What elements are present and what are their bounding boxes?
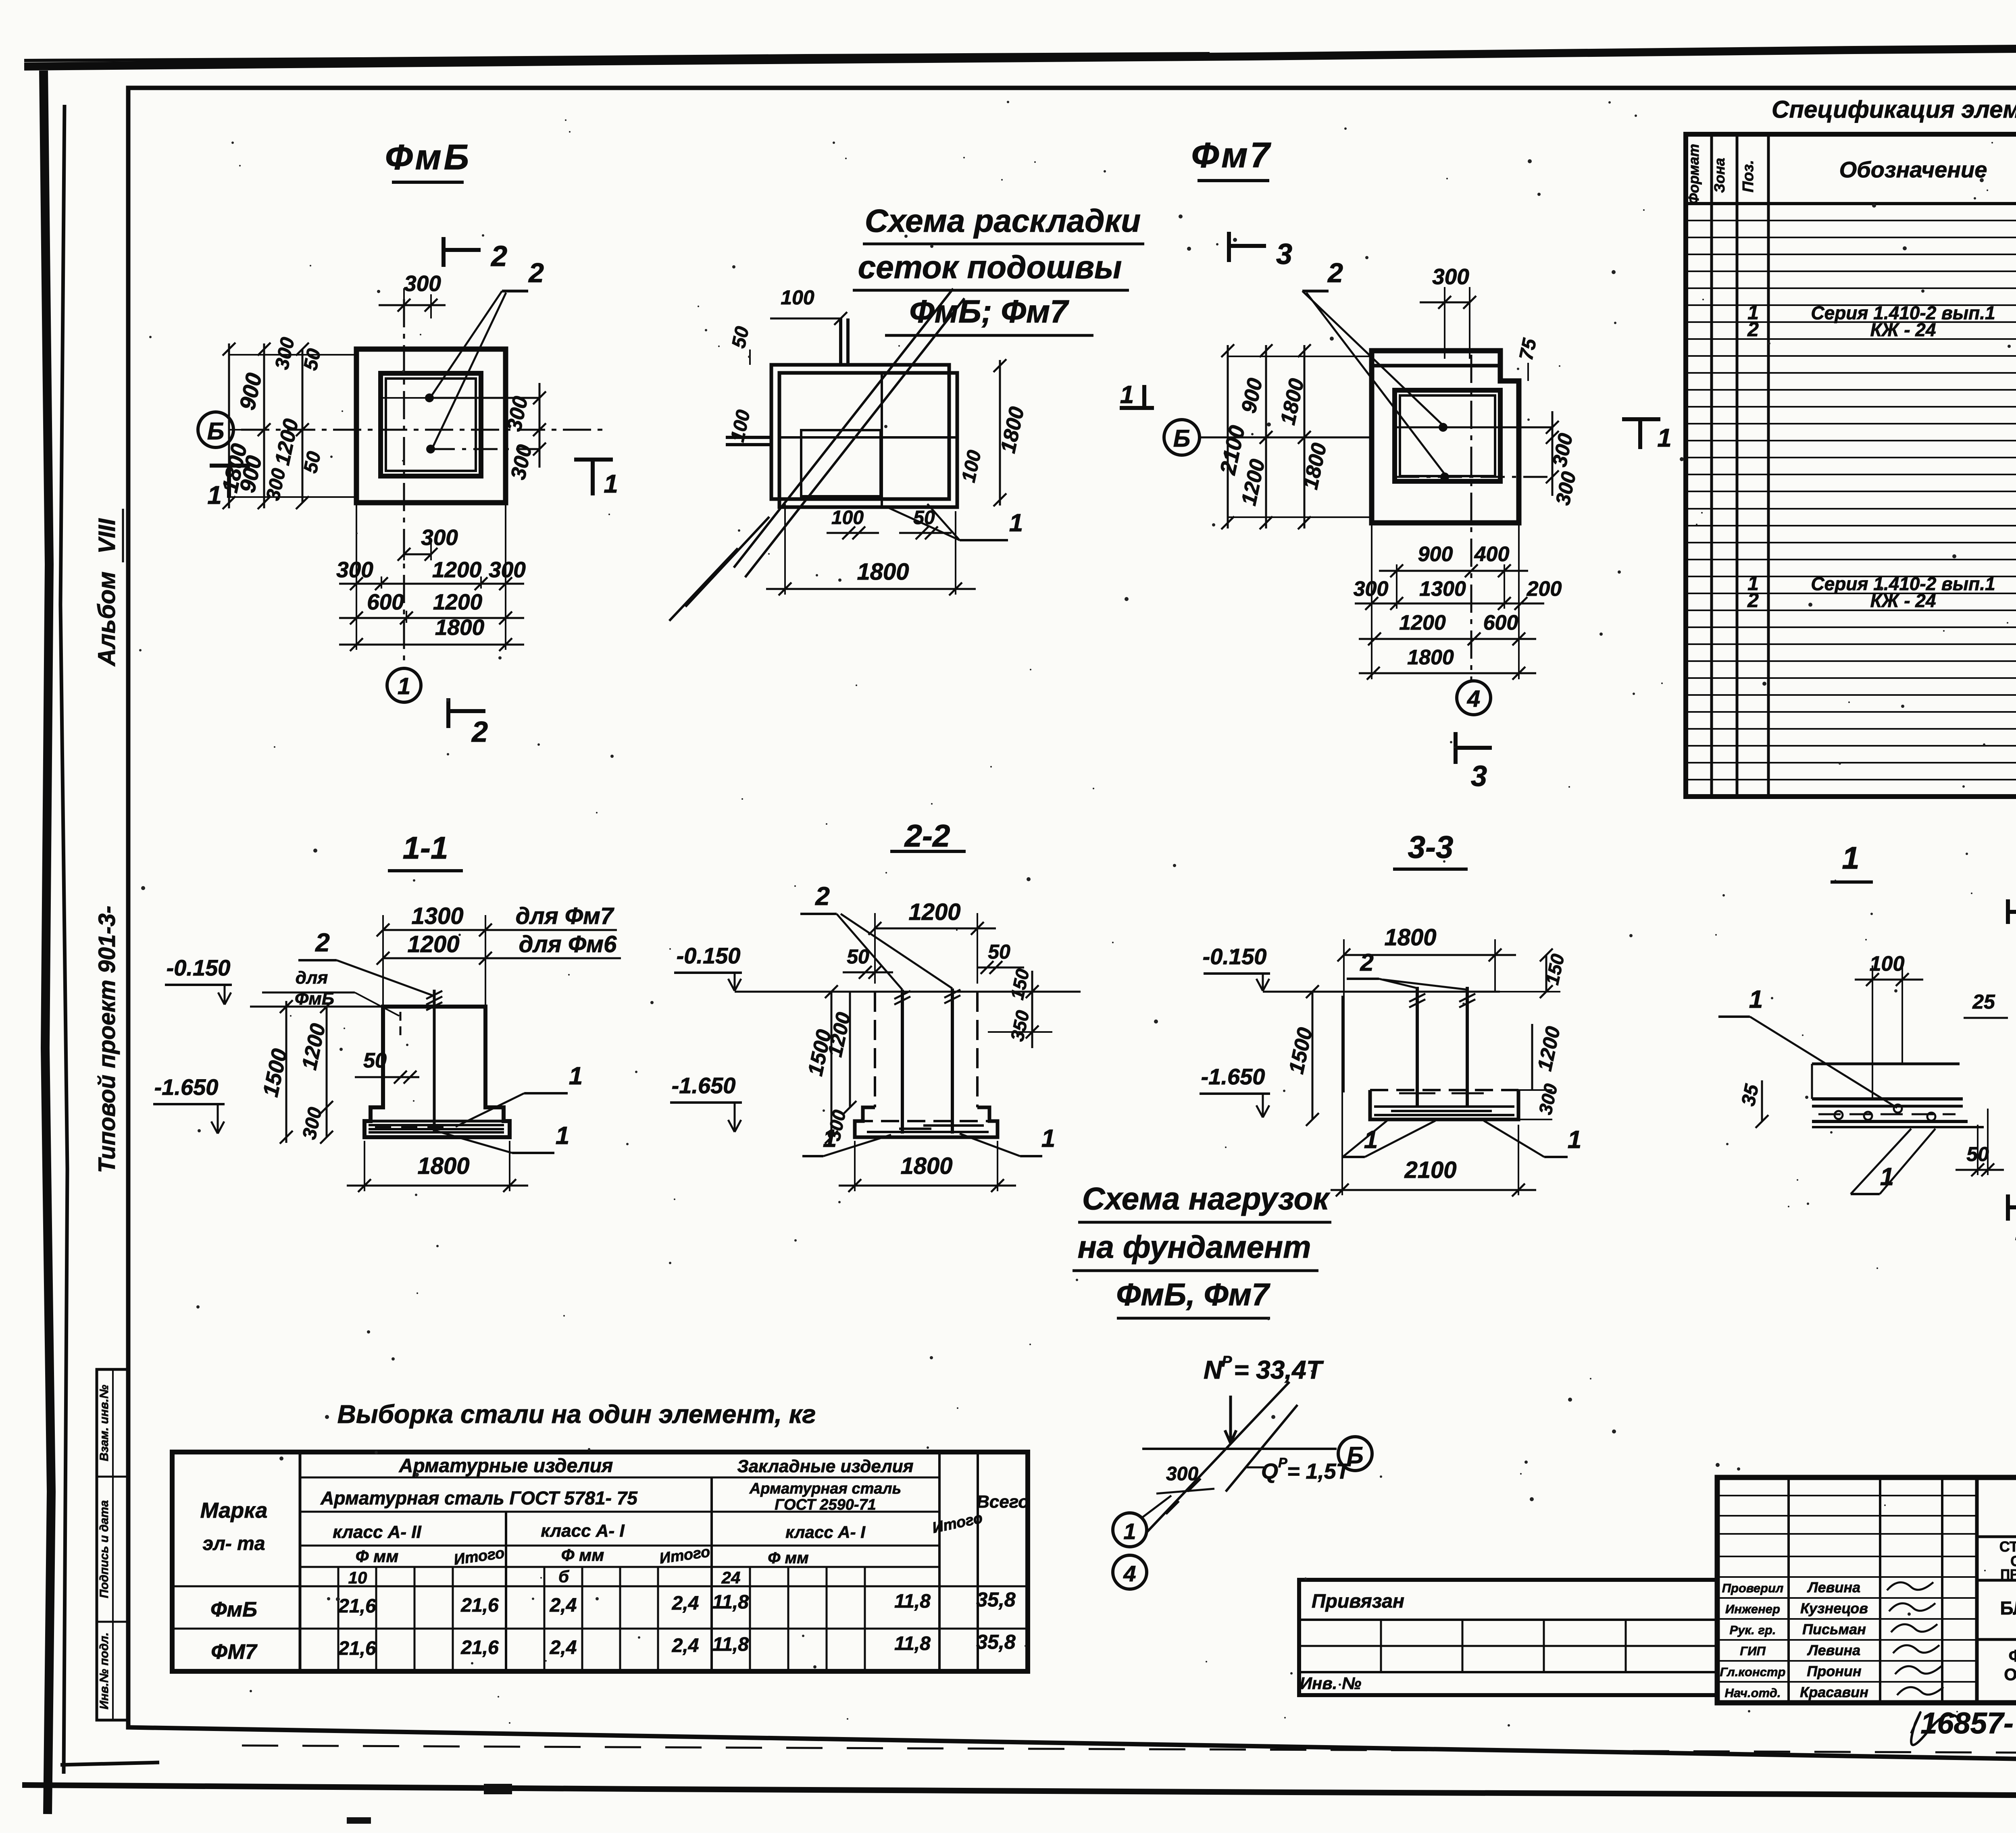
svg-text:300: 300 bbox=[421, 525, 458, 550]
svg-text:Ф мм: Ф мм bbox=[768, 1549, 809, 1567]
svg-text:Красавин: Красавин bbox=[1800, 1684, 1868, 1700]
svg-text:2: 2 bbox=[490, 240, 507, 273]
svg-text:КЖ - 24: КЖ - 24 bbox=[1870, 590, 1936, 611]
svg-text:Б: Б bbox=[1173, 425, 1190, 452]
svg-text:Арматурные изделия: Арматурные изделия bbox=[399, 1455, 613, 1477]
section marker 2 top bbox=[442, 237, 446, 267]
rebars (3-3) bbox=[1416, 987, 1419, 1107]
svg-text:сеток подошвы: сеток подошвы bbox=[858, 249, 1122, 285]
svg-text:1: 1 bbox=[398, 673, 410, 699]
FM7 left dim chains bbox=[1227, 345, 1229, 528]
plan FM6 inner square (cup) bbox=[381, 373, 481, 476]
svg-text:1: 1 bbox=[1009, 509, 1023, 537]
svg-text:50: 50 bbox=[988, 940, 1010, 963]
svg-text:1: 1 bbox=[823, 1125, 837, 1153]
surface line (3-3) bbox=[1263, 991, 1500, 993]
svg-text:2: 2 bbox=[1360, 949, 1373, 976]
svg-text:1: 1 bbox=[1120, 381, 1134, 409]
svg-text:50: 50 bbox=[363, 1049, 387, 1072]
axis circle B (FM7) bbox=[1164, 420, 1200, 455]
svg-text:Р: Р bbox=[1222, 1353, 1232, 1370]
scan border top line bbox=[24, 45, 2016, 67]
svg-text:1: 1 bbox=[1568, 1126, 1581, 1154]
svg-text:ФмБ: ФмБ bbox=[385, 137, 471, 177]
svg-text:Спецификация элементов монол: Спецификация элементов монолитной констр… bbox=[1772, 96, 2016, 123]
svg-text:10: 10 bbox=[348, 1568, 367, 1587]
embedded item dots bbox=[425, 393, 434, 402]
svg-text:КЖ - 24: КЖ - 24 bbox=[1870, 319, 1936, 340]
svg-text:600: 600 bbox=[1483, 611, 1518, 635]
axis circle B (FM6) bbox=[198, 412, 233, 447]
svg-text:Р: Р bbox=[1278, 1455, 1287, 1471]
svg-text:50: 50 bbox=[728, 325, 753, 350]
svg-text:СТАНЦИЯ ОЧИСТКИ ВОДЫ ПОВЕРХНОС: СТАНЦИЯ ОЧИСТКИ ВОДЫ ПОВЕРХНОСТНЫХ ИСТОЧ… bbox=[1999, 1538, 2016, 1555]
svg-text:= 1,5Т: = 1,5Т bbox=[1287, 1459, 1351, 1483]
svg-text:Привязан: Привязан bbox=[1312, 1591, 1404, 1612]
svg-text:Схема нагрузок: Схема нагрузок bbox=[1082, 1181, 1330, 1216]
svg-text:ФУНДАМЕНТЫ ФМ6; ФМ7: ФУНДАМЕНТЫ ФМ6; ФМ7 bbox=[2009, 1646, 2016, 1665]
svg-text:Арматурная сталь ГОСТ 5781- 7: Арматурная сталь ГОСТ 5781- 75 bbox=[320, 1488, 638, 1508]
svg-text:21,6: 21,6 bbox=[460, 1595, 499, 1616]
svg-text:900: 900 bbox=[1418, 543, 1453, 566]
svg-text:= 33,4Т: = 33,4Т bbox=[1234, 1355, 1324, 1384]
section marker 2 bottom (FM6) bbox=[446, 698, 450, 728]
svg-text:Б: Б bbox=[207, 418, 224, 445]
svg-text:Гл.констр: Гл.констр bbox=[1720, 1665, 1786, 1679]
load scheme: inclined member bbox=[1147, 1382, 1289, 1532]
svg-text:24: 24 bbox=[721, 1568, 741, 1587]
mesh diagonals bbox=[745, 298, 964, 577]
svg-text:для Фм7: для Фм7 bbox=[516, 903, 614, 929]
svg-text:Нач.отд.: Нач.отд. bbox=[1724, 1686, 1781, 1700]
section 2-2 column outline bbox=[874, 992, 876, 1107]
section marker 1 right (FM7) bbox=[1622, 417, 1660, 421]
plan FM7 axes bbox=[1470, 355, 1472, 681]
section marker 4 bottom (detail 1) bbox=[2006, 1194, 2010, 1221]
svg-text:1: 1 bbox=[1041, 1125, 1055, 1153]
svg-text:2,4: 2,4 bbox=[550, 1637, 577, 1658]
svg-text:Б: Б bbox=[1347, 1442, 1363, 1469]
svg-text:1: 1 bbox=[207, 481, 222, 510]
axis circle 1 (FM6) bbox=[387, 668, 421, 702]
svg-text:Ф мм: Ф мм bbox=[356, 1547, 399, 1566]
margin stamp strip bbox=[97, 1369, 128, 1720]
svg-text:2: 2 bbox=[815, 882, 830, 911]
svg-text:1200: 1200 bbox=[407, 931, 459, 957]
svg-text:1300: 1300 bbox=[1419, 577, 1466, 601]
svg-text:35,8: 35,8 bbox=[976, 1631, 1016, 1653]
section marker 4 top (detail 1) bbox=[2006, 899, 2010, 924]
svg-text:100: 100 bbox=[1870, 952, 1905, 976]
svg-text:3: 3 bbox=[1276, 238, 1292, 270]
title block frame bbox=[1717, 1477, 2016, 1703]
axis circle 4 (FM7) bbox=[1457, 681, 1491, 715]
svg-text:-0.150: -0.150 bbox=[1203, 944, 1267, 969]
svg-text:Рук. гр.: Рук. гр. bbox=[1730, 1623, 1776, 1637]
load scheme: axis circles 1 and 4 bbox=[1113, 1513, 1147, 1547]
svg-text:1: 1 bbox=[569, 1062, 583, 1090]
svg-text:-1.650: -1.650 bbox=[154, 1074, 219, 1100]
svg-text:ФмБ; Фм7: ФмБ; Фм7 bbox=[909, 293, 1069, 329]
scan border left bar bbox=[44, 71, 51, 1814]
privyazan table bbox=[1299, 1580, 1717, 1695]
title block left grid bbox=[1787, 1477, 1790, 1703]
plan FM7 outline bbox=[1372, 351, 1519, 523]
svg-text:1: 1 bbox=[604, 469, 618, 498]
svg-text:Зона: Зона bbox=[1711, 158, 1728, 193]
svg-text:N: N bbox=[1204, 1355, 1223, 1384]
load scheme: axis B line bbox=[1142, 1448, 1337, 1450]
footing (3-3) bbox=[1370, 1090, 1518, 1119]
svg-text:VIII: VIII bbox=[94, 518, 120, 554]
svg-text:300: 300 bbox=[1166, 1463, 1198, 1485]
svg-text:Типовой проект 901-3-: Типовой проект 901-3- bbox=[94, 906, 120, 1173]
svg-text:1200: 1200 bbox=[1399, 611, 1446, 635]
svg-text:50: 50 bbox=[300, 449, 325, 475]
svg-text:-0.150: -0.150 bbox=[677, 943, 741, 968]
svg-text:1800: 1800 bbox=[1384, 924, 1436, 951]
svg-text:2: 2 bbox=[1747, 318, 1759, 341]
spec table grid bbox=[1686, 134, 2016, 797]
plan FM6 outer square bbox=[356, 349, 506, 503]
svg-text:300: 300 bbox=[489, 557, 526, 582]
svg-text:ГОСТ 2590-71: ГОСТ 2590-71 bbox=[775, 1496, 876, 1513]
svg-text:Письман: Письман bbox=[1802, 1621, 1866, 1637]
svg-text:Пронин: Пронин bbox=[1807, 1663, 1862, 1679]
steel table horizontals bbox=[300, 1477, 939, 1479]
svg-text:1300: 1300 bbox=[411, 903, 463, 929]
svg-text:21,6: 21,6 bbox=[460, 1637, 499, 1658]
svg-text:2: 2 bbox=[1747, 589, 1759, 612]
svg-text:ОПАЛУБОЧНЫЕ ЧЕРТЕЖИ: ОПАЛУБОЧНЫЕ ЧЕРТЕЖИ bbox=[2004, 1665, 2016, 1684]
svg-text:1800: 1800 bbox=[900, 1153, 952, 1179]
svg-text:1200: 1200 bbox=[908, 899, 960, 925]
svg-text:1: 1 bbox=[556, 1122, 569, 1150]
svg-text:ФмБ, Фм7: ФмБ, Фм7 bbox=[1116, 1277, 1270, 1312]
svg-text:класс А- I: класс А- I bbox=[541, 1521, 625, 1541]
svg-text:3-3: 3-3 bbox=[1408, 829, 1454, 865]
svg-text:для Фм6: для Фм6 bbox=[519, 931, 617, 957]
steel table verticals bbox=[299, 1452, 302, 1671]
svg-text:4: 4 bbox=[1467, 686, 1480, 712]
svg-text:Марка: Марка bbox=[200, 1498, 268, 1523]
svg-text:на фундамент: на фундамент bbox=[1078, 1229, 1311, 1265]
svg-text:класс А- I: класс А- I bbox=[785, 1523, 866, 1542]
svg-text:11,8: 11,8 bbox=[894, 1633, 931, 1654]
svg-text:1800: 1800 bbox=[1407, 646, 1454, 669]
svg-text:50: 50 bbox=[847, 945, 869, 968]
plan FM6 axis lines bbox=[241, 429, 603, 431]
svg-text:Закладные изделия: Закладные изделия bbox=[737, 1456, 913, 1476]
svg-text:ГИП: ГИП bbox=[1740, 1644, 1766, 1658]
svg-text:ФмБ: ФмБ bbox=[210, 1598, 257, 1621]
svg-text:50: 50 bbox=[300, 347, 325, 372]
section marker 1 right (FM6) bbox=[574, 458, 613, 462]
svg-text:2,4: 2,4 bbox=[672, 1593, 699, 1614]
svg-text:Фм7: Фм7 bbox=[1191, 135, 1272, 175]
svg-text:Взам. инв.№: Взам. инв.№ bbox=[98, 1385, 111, 1461]
svg-text:4: 4 bbox=[1123, 1561, 1136, 1586]
svg-text:2-2: 2-2 bbox=[904, 818, 950, 853]
svg-text:2: 2 bbox=[471, 716, 488, 748]
signature squiggle below bbox=[1911, 1712, 1960, 1745]
slab (detail 1) bbox=[1812, 1063, 1960, 1065]
svg-text:11,8: 11,8 bbox=[894, 1591, 931, 1612]
svg-text:класс А- II: класс А- II bbox=[333, 1522, 421, 1542]
svg-text:Всего: Всего bbox=[977, 1492, 1029, 1512]
svg-text:2100: 2100 bbox=[1404, 1157, 1456, 1183]
svg-text:21,6: 21,6 bbox=[338, 1596, 376, 1617]
svg-text:эл- та: эл- та bbox=[202, 1533, 265, 1554]
svg-text:2,4: 2,4 bbox=[672, 1635, 699, 1656]
section marker 3 bottom bbox=[1454, 732, 1458, 764]
svg-text:б: б bbox=[558, 1567, 569, 1586]
svg-text:для: для bbox=[296, 968, 328, 988]
svg-text:Проверил: Проверил bbox=[1722, 1581, 1784, 1595]
svg-text:1: 1 bbox=[1657, 423, 1672, 452]
svg-text:1200: 1200 bbox=[432, 557, 482, 582]
svg-text:25: 25 bbox=[1972, 990, 1995, 1013]
plan FM7 inner cup bbox=[1395, 390, 1500, 481]
svg-text:3: 3 bbox=[1471, 760, 1487, 793]
section 2-2 surface line bbox=[735, 991, 1081, 993]
embedded dots FM7 bbox=[1439, 423, 1447, 432]
svg-text:Формат: Формат bbox=[1685, 144, 1702, 204]
svg-text:Левина: Левина bbox=[1807, 1579, 1860, 1596]
svg-text:35,8: 35,8 bbox=[976, 1588, 1016, 1611]
svg-text:300: 300 bbox=[336, 557, 373, 582]
svg-text:Арматурная сталь: Арматурная сталь bbox=[749, 1480, 901, 1497]
section marker 1 left of axis B bbox=[210, 464, 250, 468]
svg-text:-1.650: -1.650 bbox=[672, 1073, 736, 1098]
svg-text:2,4: 2,4 bbox=[550, 1595, 577, 1616]
left rotated dims (2-2) bbox=[831, 992, 833, 1137]
svg-text:Выборка стали на один элем: Выборка стали на один элемент, кг bbox=[337, 1400, 816, 1429]
svg-text:1800: 1800 bbox=[417, 1153, 469, 1179]
svg-text:Подпись и дата: Подпись и дата bbox=[98, 1500, 111, 1598]
rebar (1-1) bbox=[433, 990, 436, 1132]
svg-text:-1.650: -1.650 bbox=[1201, 1064, 1265, 1089]
svg-text:1800: 1800 bbox=[857, 559, 909, 585]
svg-text:21,6: 21,6 bbox=[338, 1638, 376, 1659]
svg-text:2: 2 bbox=[528, 258, 544, 288]
svg-text:1-1: 1-1 bbox=[403, 830, 448, 865]
svg-text:ФМ7: ФМ7 bbox=[211, 1640, 258, 1664]
right dims (3-3) bbox=[1545, 955, 1547, 992]
svg-text:100: 100 bbox=[831, 507, 864, 528]
section marker 1 with arrow (between drawings) bbox=[1120, 406, 1154, 410]
rebars (2-2) bbox=[901, 990, 904, 1134]
svg-text:200: 200 bbox=[1527, 577, 1562, 601]
svg-text:11,8: 11,8 bbox=[712, 1592, 749, 1613]
svg-text:Поз.: Поз. bbox=[1740, 160, 1757, 193]
svg-text:Инв.№ подл.: Инв.№ подл. bbox=[98, 1632, 111, 1709]
right rotated dims 150/350 (2-2) bbox=[1031, 971, 1033, 1048]
svg-text:1800: 1800 bbox=[435, 615, 485, 640]
scan speckles bbox=[1206, 1661, 1207, 1662]
svg-text:300: 300 bbox=[404, 271, 441, 296]
section 1-1 body bbox=[364, 1007, 510, 1137]
svg-text:1: 1 bbox=[1749, 986, 1763, 1013]
steel table frame bbox=[172, 1452, 1028, 1671]
left dim (3-3) bbox=[1312, 992, 1314, 1119]
svg-text:Левина: Левина bbox=[1807, 1642, 1860, 1658]
section 1-1 left dims bbox=[285, 1001, 287, 1143]
section marker 3 top bbox=[1227, 232, 1231, 262]
plan FM6 left dim chains bbox=[228, 343, 230, 508]
svg-text:1: 1 bbox=[1123, 1519, 1136, 1544]
svg-text:Схема раскладки: Схема раскладки bbox=[865, 203, 1141, 239]
svg-text:300: 300 bbox=[1432, 264, 1469, 289]
mesh sheets bbox=[771, 365, 949, 499]
svg-text:Ф мм: Ф мм bbox=[561, 1546, 604, 1565]
svg-text:БЛОК МИКРОФИЛЬТРОВ.: БЛОК МИКРОФИЛЬТРОВ. bbox=[2000, 1598, 2016, 1619]
svg-text:600: 600 bbox=[367, 589, 404, 614]
svg-text:Обозначение: Обозначение bbox=[1839, 157, 1987, 182]
svg-text:100: 100 bbox=[781, 286, 814, 309]
svg-text:Инженер: Инженер bbox=[1725, 1602, 1780, 1616]
svg-text:-0.150: -0.150 bbox=[167, 955, 231, 980]
svg-text:2: 2 bbox=[1327, 258, 1343, 288]
plan FM6 right dims 300/300 bbox=[539, 383, 541, 468]
svg-text:Кузнецов: Кузнецов bbox=[1800, 1600, 1868, 1617]
svg-text:Инв. №: Инв. № bbox=[1300, 1674, 1361, 1693]
svg-text:2: 2 bbox=[315, 928, 330, 957]
svg-text:1200: 1200 bbox=[433, 589, 483, 614]
svg-text:1: 1 bbox=[1842, 840, 1859, 876]
load scheme: vertical force arrow bbox=[1225, 1396, 1236, 1443]
svg-text:11,8: 11,8 bbox=[712, 1634, 749, 1655]
scan border bottom line bbox=[22, 1785, 2016, 1798]
svg-text:Альбом: Альбом bbox=[93, 572, 120, 667]
svg-text:400: 400 bbox=[1474, 543, 1510, 566]
svg-text:Q: Q bbox=[1261, 1459, 1278, 1483]
